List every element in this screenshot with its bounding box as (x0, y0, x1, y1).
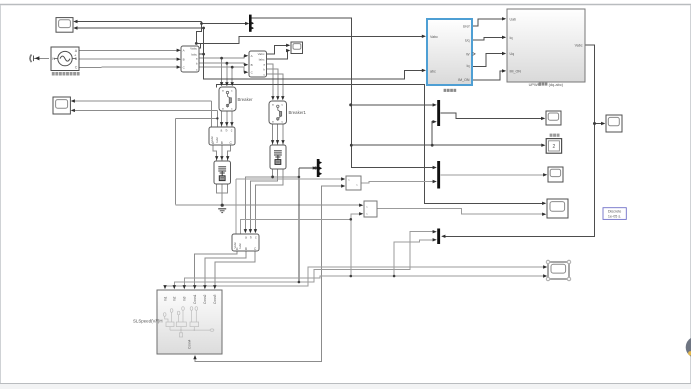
svg-text:Breaker: Breaker (238, 97, 254, 102)
svg-text:abc: abc (430, 70, 436, 74)
svg-text:b: b (250, 236, 252, 240)
svg-text:N: N (52, 57, 55, 61)
svg-text:Iq: Iq (467, 64, 470, 68)
svg-text:(dq-abc): (dq-abc) (549, 82, 564, 87)
svg-text:In2: In2 (173, 296, 177, 301)
svg-text:Vabc: Vabc (575, 44, 583, 48)
svg-text:2: 2 (553, 144, 556, 150)
svg-text:IM_ON: IM_ON (458, 78, 470, 82)
svg-text:>: > (366, 205, 368, 209)
svg-text:Uq: Uq (465, 39, 470, 43)
svg-text:SLSpeed(V/f)H: SLSpeed(V/f)H (133, 319, 163, 324)
svg-text:Uab: Uab (510, 17, 517, 21)
svg-text:In1: In1 (163, 296, 167, 301)
svg-text:a: a (221, 129, 223, 133)
svg-text:>: > (348, 178, 350, 182)
svg-text:>: > (366, 212, 368, 216)
svg-text:a: a (245, 236, 247, 240)
svg-text:IM_ON: IM_ON (510, 69, 522, 73)
svg-text:Vabc: Vabc (190, 47, 197, 51)
svg-text:Vabc: Vabc (430, 35, 438, 39)
svg-text:Conn1: Conn1 (193, 294, 197, 304)
svg-text:Conn2: Conn2 (203, 294, 207, 304)
svg-text:Iabc: Iabc (215, 136, 219, 142)
svg-text:B: B (221, 141, 223, 145)
svg-text:Conn3: Conn3 (213, 294, 217, 304)
svg-text:A: A (183, 49, 185, 53)
svg-text:Discrete: Discrete (608, 210, 622, 214)
svg-text:Iabc: Iabc (238, 242, 242, 248)
svg-text:1e-05 s.: 1e-05 s. (608, 214, 621, 218)
svg-text:B: B (183, 57, 185, 61)
svg-text:C: C (75, 66, 78, 70)
svg-text:b: b (226, 129, 228, 133)
svg-text:B: B (245, 247, 247, 251)
svg-text:In3: In3 (183, 296, 187, 301)
svg-text:A: A (251, 54, 253, 58)
svg-text:Vabc: Vabc (258, 52, 265, 56)
svg-text:Conn4: Conn4 (188, 339, 192, 349)
svg-text:Iabc: Iabc (259, 58, 265, 62)
svg-text:W: W (466, 52, 470, 56)
svg-text:Uq: Uq (510, 52, 515, 56)
svg-text:B: B (251, 63, 253, 67)
svg-text:Uref: Uref (463, 25, 470, 29)
svg-text:Breaker1: Breaker1 (289, 110, 307, 115)
svg-text:Iq: Iq (510, 36, 513, 40)
svg-text:>: > (356, 183, 358, 187)
